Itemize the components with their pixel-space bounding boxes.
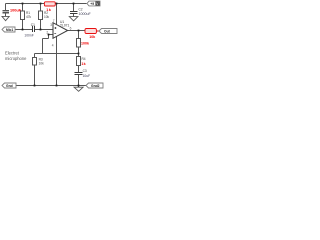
svg-text:C3: C3 xyxy=(83,69,87,73)
svg-text:Gnd2: Gnd2 xyxy=(91,84,100,88)
svg-text:1000uF: 1000uF xyxy=(79,12,92,16)
svg-text:+9: +9 xyxy=(90,2,94,6)
svg-text:100k: 100k xyxy=(81,41,89,45)
svg-text:47k: 47k xyxy=(26,15,32,19)
svg-text:Gnd: Gnd xyxy=(6,84,13,88)
svg-text:C1: C1 xyxy=(31,23,35,27)
svg-text:4: 4 xyxy=(52,44,54,48)
svg-text:3: 3 xyxy=(50,23,52,27)
svg-text:10k: 10k xyxy=(89,35,95,39)
svg-text:10k: 10k xyxy=(44,15,50,19)
svg-text:1k: 1k xyxy=(81,62,85,66)
svg-text:TL071: TL071 xyxy=(60,23,70,27)
svg-text:100nF: 100nF xyxy=(24,33,33,37)
svg-text:microphone: microphone xyxy=(5,56,27,61)
svg-text:6: 6 xyxy=(70,26,72,30)
svg-text:R4: R4 xyxy=(82,57,86,61)
svg-text:2: 2 xyxy=(46,31,48,35)
svg-text:Electret: Electret xyxy=(5,50,20,55)
svg-text:Out: Out xyxy=(104,30,111,34)
svg-text:Mic1: Mic1 xyxy=(6,28,13,32)
svg-text:100uF: 100uF xyxy=(10,9,22,13)
svg-text:10k: 10k xyxy=(39,62,45,66)
svg-text:10uF: 10uF xyxy=(83,74,91,78)
svg-text:7: 7 xyxy=(53,19,55,23)
